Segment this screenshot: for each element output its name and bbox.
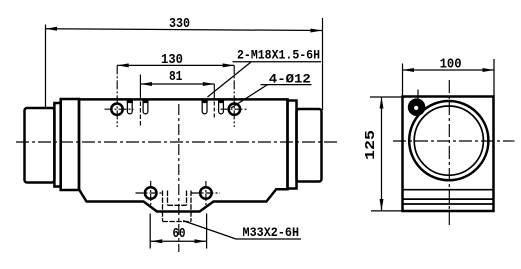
svg-text:130: 130 [161,52,183,68]
svg-text:60: 60 [173,226,186,242]
label underline M33 [236,238,301,240]
right end cap [297,109,322,182]
centerline bottom circle1 horizontal [136,192,163,194]
dimension 100 arrows [403,68,415,72]
label underline 2-M18 [233,61,322,63]
bore outer circle [409,101,488,180]
svg-text:M33X2-6H: M33X2-6H [243,225,300,240]
left collar ring B [61,99,79,190]
main body outline [79,99,288,211]
centerline circle2 horizontal [221,108,249,110]
tapped hole hidden lines A1 [127,100,132,114]
end view flange line 1 [404,189,493,191]
dimension 100 extensions [403,59,495,97]
bottom hole circle 2 [200,187,212,199]
dimension 330 left extension [45,25,47,109]
svg-text:2-M18X1.5-6H: 2-M18X1.5-6H [237,48,320,63]
dimension 125 extensions [370,97,405,211]
dimension 130 line [117,64,234,66]
svg-text:125: 125 [363,130,379,160]
dimension 330 arrows [46,27,58,31]
end view horizontal centerline [393,140,515,142]
bore inner circle [414,106,483,175]
leader 2-M18 [208,62,252,97]
dimension 125 line [381,97,383,211]
tapped hole hidden lines B2 [219,100,224,114]
leader 4-Ø12 [231,85,268,108]
81 left extension line [139,75,141,100]
right collar ring [288,101,297,189]
dimension 81 arrows [140,82,152,86]
end view flange line 2 [404,198,493,200]
centerline bottom circle1 vertical [150,181,152,207]
81 right extension line [213,84,215,100]
dimension 81 line [140,83,214,85]
top hole circle 1 [111,104,122,115]
top hole circle 2 [229,104,240,115]
label underline 4-Ø12 [261,84,312,86]
centerline circle1 vertical (130 left extension) [116,65,118,127]
dimension 60 extensions [150,214,206,249]
centerline bottom circle2 horizontal [192,192,221,194]
left end cap [25,108,55,183]
left collar ring A [54,103,60,187]
svg-text:81: 81 [169,69,183,85]
svg-text:100: 100 [440,57,462,73]
end view vertical centerline [448,80,450,225]
dimension 100 line [403,69,495,71]
dimension 330 line [46,29,323,31]
horizontal centerline left view [16,141,338,143]
tapped hole hidden lines B1 [202,100,207,114]
port hole filled [408,98,426,116]
tapped hole hidden lines A2 [143,100,148,114]
centerline bottom circle2 vertical [205,181,207,207]
bottom hole circle 1 [145,187,157,199]
dimension 125 arrows [380,97,384,109]
svg-text:330: 330 [169,16,190,32]
end view flange line 3 [404,203,493,205]
M33 minor diameter hidden lines [168,191,187,206]
dimension 330 right extension [322,18,324,110]
M33 threaded hole hidden outline [163,191,192,222]
end view square body [403,97,494,212]
vertical centerline left view [178,104,180,252]
dimension 60 line [151,240,206,242]
dimension 60 arrows [151,239,163,243]
leader M33 [183,221,236,239]
svg-text:4-Ø12: 4-Ø12 [269,72,311,87]
centerline circle2 vertical (130 right extension) [233,65,235,127]
port hole centerline [417,90,419,101]
dimension 130 arrows [117,63,129,67]
centerline circle1 horizontal [105,108,134,110]
